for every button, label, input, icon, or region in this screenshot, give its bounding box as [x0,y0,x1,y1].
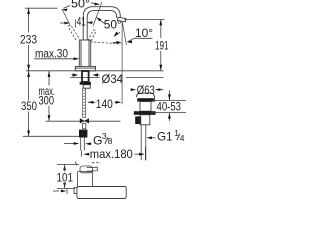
bv dashes [92,162,101,164]
50 deg lower second arrow line [115,32,121,36]
50 deg guide lines [62,2,126,104]
G3/8 label [93,131,113,147]
left open lever [68,25,79,40]
max300 dim line upper [48,71,50,86]
outlet tee outline [140,115,150,125]
tailpipe right wall [145,125,147,160]
bv lever arm [87,167,98,171]
D1 left tilt line [62,9,70,26]
svg-text:8: 8 [108,136,113,146]
body inner wall right [88,41,90,67]
supply pipe right wall [83,138,85,151]
pipe bottom tick [81,151,83,157]
350 bottom ref line [23,135,80,137]
41 dim lines [60,20,93,28]
deck bottom line right [126,77,164,79]
40-53 top arrow [168,94,171,100]
body outer right [90,40,92,66]
233 dim line lower [28,45,30,71]
svg-text:50°: 50° [71,0,90,10]
spout tube inner [87,10,116,40]
max30 underline leader [34,58,76,60]
G3/8 label arrows [64,143,92,145]
lower dark band [134,111,156,115]
G3/8 left arrow [74,142,80,145]
101 top arrow [63,165,66,171]
bv leader [75,162,77,166]
10 deg tilted line [122,21,126,45]
50low second arrow [114,32,119,37]
flange outline [137,93,155,102]
Oe34 left arrow [73,73,79,76]
140 right arrow [116,101,122,104]
svg-text:max.30: max.30 [35,47,68,61]
deck top line [26,70,164,72]
233 dim line upper [28,8,30,32]
D2 right tilt line [93,2,102,27]
101 bottom ref line [57,187,75,189]
bv arrow line [53,190,59,192]
40-53 bottom arrow [168,113,171,119]
max30 arrow [74,57,80,60]
body inner wall left [80,41,82,67]
Oe34 arrows [72,74,100,76]
bv body [77,172,92,189]
40-53 ref lines [151,91,187,122]
rod stub below fitting [83,123,86,129]
max180 right arrow [139,153,145,156]
svg-text:3: 3 [102,131,107,141]
G1 1/4 label [157,128,185,144]
Oe63 dim lines [131,89,134,91]
G1 1/4 leader [150,137,156,139]
max180 dim line [84,147,145,160]
10deg left arrow [116,41,121,44]
bottom view [53,162,97,195]
10deg right arrow [127,40,133,43]
svg-text:Ø63: Ø63 [137,83,155,97]
deck bottom line left [70,77,100,79]
svg-text:max.180: max.180 [90,147,133,161]
233 bottom arrow [27,65,30,71]
svg-text:300: 300 [39,94,55,108]
aerator outlet [117,17,126,22]
50 deg lower leader [99,20,105,24]
top ref line for 233 [25,7,58,9]
base flange [75,66,95,70]
bv handle base [80,166,93,173]
50 deg top leaders [64,3,97,8]
101 dim line upper [64,164,66,171]
svg-text:Ø34: Ø34 [102,72,124,86]
Oe34 right arrow [92,73,98,76]
svg-text:101: 101 [57,171,74,185]
41 left arrow [64,22,70,25]
body outer left [78,40,80,66]
faucet main view [75,7,126,71]
svg-text:40-53: 40-53 [157,99,182,113]
side outlet box [135,116,141,124]
101 bottom arrow [63,183,66,189]
41 right arrow [87,21,93,24]
drain assembly [134,93,156,160]
right open lever [88,30,96,41]
lever dashed positions [68,25,121,44]
140 dim line [88,101,121,103]
191 top ref line [124,19,165,21]
101 dim line lower [64,183,66,189]
below deck: shank/nut [79,71,91,157]
233 top arrow [27,8,30,14]
10 deg left arrow line [113,41,118,43]
svg-text:233: 233 [20,33,37,47]
350 bottom arrow [27,131,30,137]
svg-text:350: 350 [21,99,37,113]
Oe63 right arrow [155,88,161,91]
191 top arrow [159,20,162,26]
50low arrow [96,17,101,21]
191 bottom arrow [159,65,162,71]
350 dim line lower [28,112,30,137]
max300 dim line lower [48,106,50,121]
tailpipe left wall [140,125,142,160]
drain body [140,102,151,112]
101 top ref line [57,163,79,165]
svg-text:41: 41 [77,14,86,28]
svg-text:G1: G1 [157,130,173,144]
350 top arrow [27,71,30,77]
350 dim line upper [28,71,30,101]
140 left arrow [88,101,94,104]
max300 top arrow [48,71,51,77]
10 deg leader [128,38,153,42]
Oe63 left arrow [131,88,137,91]
max180 left arrow [84,153,90,156]
bv side box [74,188,77,194]
spout tube outer [83,7,120,40]
supply pipe left wall [80,138,82,151]
lever horizontal dash line [91,42,122,44]
svg-text:4: 4 [180,133,185,143]
max300 ref line [46,120,121,122]
bottom view arrow [61,190,67,193]
50top right arrow [94,3,100,6]
body top cap [79,39,90,41]
svg-text:191: 191 [155,38,169,52]
ARROWHEADS [27,3,171,193]
bowtie fitting [80,118,89,123]
50top left arrow [62,9,68,12]
G1 1/4 arrow [146,136,152,139]
G3/8 nipple [79,130,87,138]
svg-text:140: 140 [96,97,113,111]
threaded rod [83,88,86,118]
bv spout bar [77,187,126,199]
svg-text:10°: 10° [135,26,153,40]
G3/8 right arrow [85,142,91,145]
max300 bottom arrow [48,115,51,121]
10 deg vertical drop line [121,21,123,104]
191 dim line [160,20,162,39]
svg-text:50°: 50° [104,18,122,32]
flange dark band [137,98,154,101]
bv ext tick [66,189,68,195]
